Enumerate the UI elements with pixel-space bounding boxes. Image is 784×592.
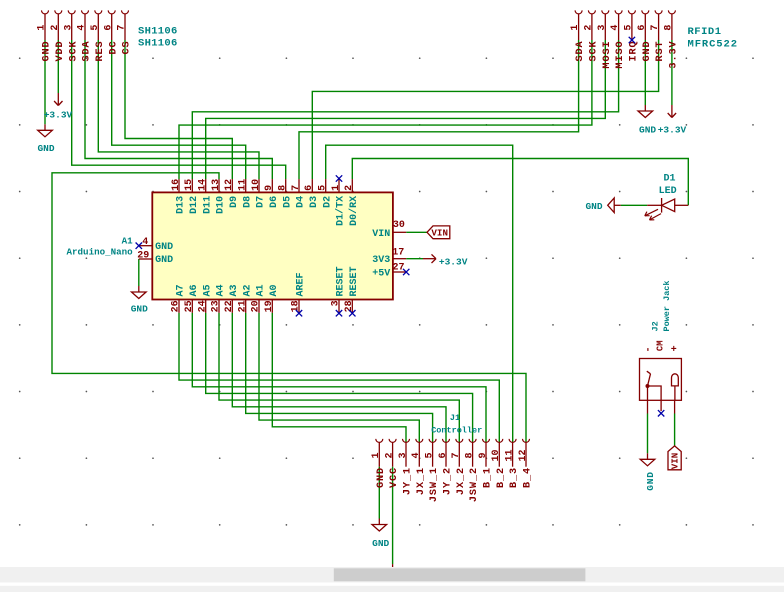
svg-text:GND: GND [639,124,656,135]
svg-text:3: 3 [331,300,342,306]
svg-text:12: 12 [224,179,235,191]
svg-text:7: 7 [650,25,661,31]
svg-text:GND: GND [372,538,389,549]
svg-text:-: - [643,346,654,352]
svg-text:JY_1: JY_1 [403,467,414,495]
svg-text:4: 4 [411,452,422,458]
svg-text:6: 6 [103,25,114,31]
svg-text:CM: CM [656,341,666,352]
svg-text:5: 5 [424,452,435,458]
svg-text:RESET: RESET [349,266,360,296]
svg-text:Arduino_Nano: Arduino_Nano [67,247,134,258]
svg-text:1: 1 [371,452,382,458]
svg-text:RESET: RESET [336,266,347,296]
svg-text:JSW_1: JSW_1 [429,467,440,502]
svg-text:D2: D2 [322,196,333,208]
svg-text:VIN: VIN [431,228,448,239]
svg-text:5: 5 [90,25,101,31]
svg-text:D11: D11 [202,196,213,214]
svg-text:2: 2 [50,25,61,31]
svg-text:GND: GND [131,304,148,315]
svg-text:12: 12 [518,449,529,461]
svg-text:10: 10 [491,449,502,461]
svg-text:4: 4 [77,25,88,31]
svg-text:D3: D3 [309,196,320,208]
svg-text:6: 6 [304,185,315,191]
svg-text:VDD: VDD [55,41,66,62]
svg-text:GND: GND [645,471,656,491]
svg-text:+3.3V: +3.3V [658,124,687,135]
svg-text:2: 2 [584,25,595,31]
svg-text:SCK: SCK [68,41,79,62]
svg-text:8: 8 [464,452,475,458]
svg-text:MOSI: MOSI [602,41,613,69]
svg-text:4: 4 [610,25,621,31]
svg-text:D12: D12 [189,196,200,214]
svg-text:D5: D5 [282,196,293,208]
svg-text:11: 11 [504,449,515,461]
svg-text:21: 21 [237,300,248,312]
svg-text:SDA: SDA [82,41,93,62]
svg-text:+5V: +5V [372,269,390,280]
svg-text:14: 14 [198,179,209,191]
svg-text:9: 9 [264,185,275,191]
svg-text:3: 3 [63,25,74,31]
svg-text:3V3: 3V3 [372,255,390,266]
svg-text:D8: D8 [242,196,253,208]
svg-text:SDA: SDA [575,41,586,62]
svg-text:30: 30 [393,220,405,231]
svg-text:MFRC522: MFRC522 [688,38,738,50]
svg-text:MISO: MISO [615,41,626,69]
svg-text:B_4: B_4 [523,467,534,488]
svg-text:D6: D6 [269,196,280,208]
svg-text:A2: A2 [242,284,253,296]
svg-text:9: 9 [478,452,489,458]
svg-text:+: + [671,345,677,356]
svg-text:SCK: SCK [589,41,600,62]
svg-text:A5: A5 [202,284,213,296]
svg-text:A4: A4 [216,284,227,296]
svg-text:DC: DC [108,41,119,55]
svg-text:GND: GND [642,41,653,62]
svg-text:JX_1: JX_1 [416,467,427,495]
svg-text:3: 3 [597,25,608,31]
svg-text:VIN: VIN [372,229,390,240]
svg-text:B_2: B_2 [496,467,507,488]
svg-text:17: 17 [392,248,404,259]
svg-text:7: 7 [117,25,128,31]
svg-text:JX_2: JX_2 [456,467,467,495]
svg-text:D1/TX: D1/TX [335,196,347,226]
svg-text:RST: RST [655,41,666,62]
svg-text:VIN: VIN [670,453,681,470]
svg-text:8: 8 [278,185,289,191]
svg-text:2: 2 [344,185,355,191]
svg-text:SH1106: SH1106 [138,38,178,50]
svg-text:RFID1: RFID1 [688,26,722,38]
svg-text:1: 1 [570,25,581,31]
svg-text:GND: GND [37,143,54,154]
svg-text:B_1: B_1 [483,467,494,488]
svg-text:4: 4 [142,237,148,248]
svg-text:16: 16 [171,179,182,191]
svg-text:+3.3V: +3.3V [439,256,468,267]
svg-text:5: 5 [624,25,635,31]
svg-text:LED: LED [659,186,677,197]
svg-text:D0/RX: D0/RX [348,196,360,226]
svg-text:11: 11 [238,179,249,191]
svg-text:CS: CS [122,41,133,55]
svg-text:13: 13 [211,179,222,191]
svg-text:D4: D4 [296,196,307,208]
svg-text:24: 24 [197,300,208,312]
svg-text:8: 8 [664,25,675,31]
svg-text:19: 19 [264,300,275,312]
svg-text:15: 15 [184,179,195,191]
svg-text:D7: D7 [256,196,267,208]
svg-text:J2: J2 [651,321,661,331]
svg-text:1: 1 [37,25,48,31]
svg-text:10: 10 [251,179,262,191]
svg-text:VCC: VCC [389,467,400,488]
svg-text:7: 7 [451,452,462,458]
svg-text:23: 23 [211,300,222,312]
svg-text:GND: GND [376,467,387,488]
svg-text:A7: A7 [176,284,187,296]
svg-text:26: 26 [171,300,182,312]
svg-text:B_3: B_3 [509,467,520,488]
svg-text:AREF: AREF [296,272,307,296]
svg-text:7: 7 [291,185,302,191]
svg-text:6: 6 [438,452,449,458]
svg-text:D10: D10 [216,196,227,214]
svg-text:GND: GND [585,201,602,212]
svg-text:A1: A1 [122,235,134,246]
svg-text:JY_2: JY_2 [443,467,454,495]
svg-text:Controller: Controller [431,425,482,435]
svg-text:A0: A0 [269,284,280,296]
svg-text:Power Jack: Power Jack [662,280,672,331]
svg-text:20: 20 [251,300,262,312]
svg-text:SH1106: SH1106 [138,26,178,38]
svg-text:D9: D9 [229,196,240,208]
svg-text:A3: A3 [229,284,240,296]
svg-text:29: 29 [137,250,149,261]
svg-text:27: 27 [392,263,404,274]
svg-text:1: 1 [331,185,342,191]
svg-text:3.3V: 3.3V [669,41,680,69]
svg-text:D13: D13 [176,196,187,214]
svg-text:A1: A1 [256,284,267,296]
svg-text:22: 22 [224,300,235,312]
svg-text:RES: RES [95,41,106,62]
svg-text:GND: GND [155,242,173,253]
svg-text:5: 5 [318,185,329,191]
svg-text:2: 2 [384,452,395,458]
svg-text:A6: A6 [189,284,200,296]
svg-text:IRQ: IRQ [629,41,640,62]
svg-text:GND: GND [155,255,173,266]
svg-text:J1: J1 [450,413,460,423]
svg-text:6: 6 [637,25,648,31]
svg-text:D1: D1 [663,173,675,184]
svg-text:3: 3 [398,452,409,458]
svg-text:25: 25 [184,300,195,312]
svg-text:GND: GND [42,41,53,62]
svg-text:+3.3V: +3.3V [44,109,73,120]
svg-text:JSW_2: JSW_2 [469,467,480,502]
